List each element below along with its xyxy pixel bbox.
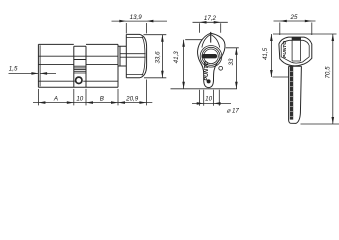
svg-text:25: 25 — [290, 14, 298, 21]
svg-text:20,9: 20,9 — [125, 96, 139, 103]
svg-text:41,5: 41,5 — [262, 47, 269, 60]
svg-text:10: 10 — [205, 95, 212, 102]
svg-text:70,5: 70,5 — [324, 66, 331, 79]
svg-text:10: 10 — [76, 96, 83, 103]
svg-text:A: A — [53, 96, 58, 103]
svg-text:B: B — [100, 96, 104, 103]
svg-text:33: 33 — [228, 58, 235, 65]
svg-text:1,5: 1,5 — [9, 66, 18, 73]
svg-text:PUNTO: PUNTO — [282, 41, 288, 58]
svg-text:17,2: 17,2 — [204, 15, 217, 22]
svg-text:33,6: 33,6 — [155, 51, 162, 64]
svg-text:PUNTO: PUNTO — [204, 61, 210, 81]
svg-text:41,3: 41,3 — [173, 51, 180, 64]
svg-text:⌀ 17: ⌀ 17 — [227, 108, 240, 115]
svg-text:13,9: 13,9 — [130, 14, 143, 21]
